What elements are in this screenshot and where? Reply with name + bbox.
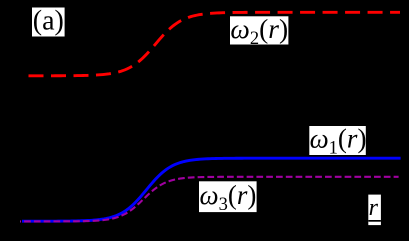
label omega3(r): [199, 180, 257, 215]
label (a): [32, 5, 65, 36]
label r (axis) with black axis line through white box: [368, 195, 381, 226]
svg-text:(a): (a): [33, 5, 64, 36]
label omega2(r): [230, 13, 288, 49]
curve omega3: magenta dashed sigmoid: [20, 177, 399, 222]
svg-text:ω1(r): ω1(r): [310, 124, 367, 159]
svg-text:ω2(r): ω2(r): [230, 13, 288, 49]
curve omega2: red dashed sigmoid: [21, 12, 400, 76]
label omega1(r): [309, 124, 366, 159]
svg-text:r: r: [369, 195, 379, 221]
curve omega1: blue solid sigmoid: [22, 158, 401, 221]
svg-text:ω3(r): ω3(r): [200, 180, 257, 215]
